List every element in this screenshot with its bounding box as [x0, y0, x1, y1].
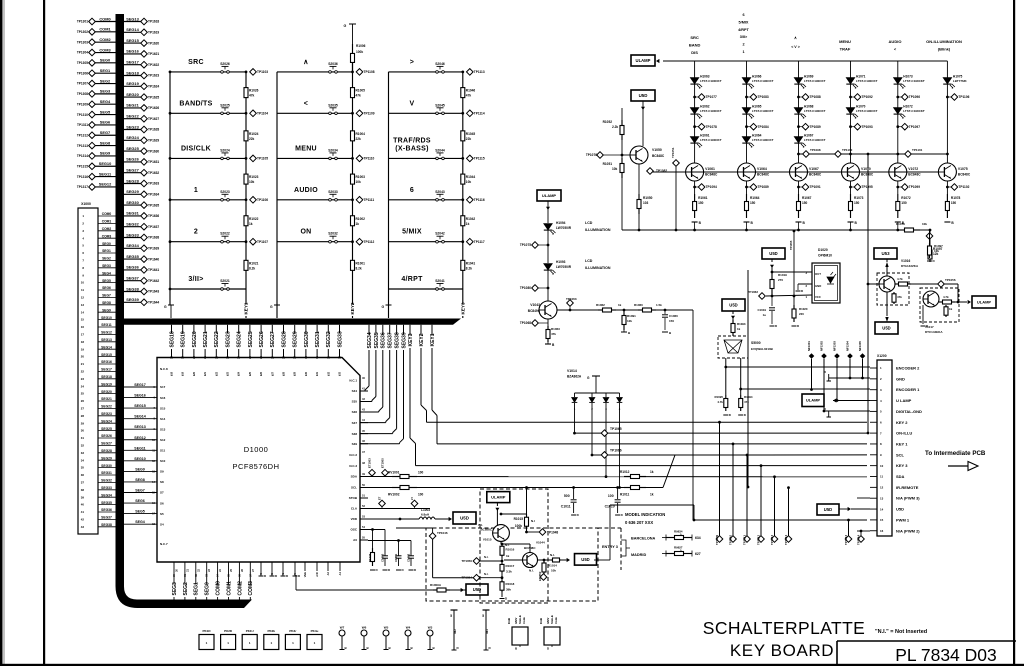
svg-text:47k: 47k [466, 94, 472, 98]
svg-text:SEG9: SEG9 [135, 467, 145, 471]
svg-text:b18: b18 [171, 371, 174, 376]
svg-text:BC848C: BC848C [861, 173, 874, 177]
svg-text:SEG19: SEG19 [181, 331, 187, 347]
svg-text:43: 43 [81, 525, 85, 529]
svg-text:b19: b19 [182, 371, 185, 376]
svg-text:H1063: H1063 [700, 75, 710, 79]
svg-text:ON-ILLUMINATION: ON-ILLUMINATION [926, 39, 962, 44]
svg-text:SDA: SDA [351, 475, 358, 479]
svg-text:10k: 10k [466, 180, 472, 184]
svg-text:SEG18: SEG18 [126, 70, 139, 75]
svg-text:S15: S15 [160, 406, 166, 410]
svg-text:R9634: R9634 [674, 530, 683, 534]
svg-text:DIGITAL-GND: DIGITAL-GND [896, 409, 922, 414]
svg-text:TP1011: TP1011 [743, 535, 747, 545]
svg-text:V1061: V1061 [705, 167, 715, 171]
svg-text:16: 16 [81, 325, 85, 329]
svg-text:PCF8576DH: PCF8576DH [232, 462, 279, 471]
svg-text:NF1304: NF1304 [846, 341, 850, 351]
svg-text:SEG4: SEG4 [135, 520, 145, 524]
svg-text:SEG20: SEG20 [192, 331, 198, 347]
svg-text:SEG18: SEG18 [101, 375, 112, 379]
svg-text:47k: 47k [249, 94, 255, 98]
svg-text:41: 41 [81, 510, 85, 514]
svg-text:R1015: R1015 [514, 517, 524, 521]
svg-text:BAND/TS: BAND/TS [179, 100, 212, 107]
svg-text:38: 38 [81, 488, 85, 492]
svg-text:1k: 1k [737, 327, 741, 331]
svg-text:22k: 22k [356, 137, 362, 141]
svg-text:5: 5 [450, 614, 452, 618]
svg-text:BARCELONA: BARCELONA [631, 537, 656, 541]
svg-text:S17: S17 [160, 385, 166, 389]
svg-text:TP1102: TP1102 [958, 185, 969, 189]
svg-text:KEY BOARD: KEY BOARD [730, 641, 834, 660]
svg-text:SEG20: SEG20 [126, 92, 139, 97]
svg-text:ENTRY 3: ENTRY 3 [602, 545, 618, 549]
svg-text:S2024: S2024 [220, 148, 230, 152]
svg-text:47k: 47k [744, 400, 749, 404]
svg-text:SEG5: SEG5 [100, 109, 111, 114]
svg-text:4/RPT: 4/RPT [401, 276, 423, 283]
svg-text:SEG21: SEG21 [101, 397, 112, 401]
svg-text:LTST-C190CKT: LTST-C190CKT [700, 109, 722, 113]
svg-text:4.7k: 4.7k [943, 295, 949, 299]
svg-text:SEG25: SEG25 [248, 331, 254, 347]
svg-text:SEG37: SEG37 [388, 332, 394, 348]
svg-text:18: 18 [170, 356, 174, 359]
svg-text:TP1094: TP1094 [706, 185, 717, 189]
svg-text:b21: b21 [204, 371, 207, 376]
svg-text:SEG22: SEG22 [101, 405, 112, 409]
svg-text:S4: S4 [160, 522, 164, 526]
svg-text:TP1315: TP1315 [77, 164, 88, 168]
svg-text:TP1628: TP1628 [148, 128, 159, 132]
svg-text:TP1307: TP1307 [77, 82, 88, 86]
svg-text:SEG11: SEG11 [99, 171, 112, 176]
svg-text:28: 28 [81, 414, 85, 418]
svg-text:TP1083: TP1083 [758, 95, 769, 99]
svg-text:D1000: D1000 [244, 445, 269, 454]
svg-text:R1044: R1044 [466, 175, 476, 179]
svg-text:22k: 22k [466, 137, 472, 141]
svg-text:22: 22 [214, 356, 218, 359]
svg-text:25: 25 [81, 392, 85, 396]
svg-text:S2041: S2041 [435, 279, 445, 283]
svg-text:SEG9: SEG9 [100, 151, 111, 156]
svg-text:LW7050/R: LW7050/R [556, 226, 572, 230]
svg-text:SEG8: SEG8 [100, 140, 111, 145]
svg-text:H1070: H1070 [856, 105, 866, 109]
svg-text:SEG25: SEG25 [101, 427, 112, 431]
svg-text:R1051: R1051 [603, 162, 613, 166]
svg-text:LW7050/R: LW7050/R [556, 265, 572, 269]
svg-text:ENCODER 2: ENCODER 2 [896, 366, 920, 371]
svg-text:S12: S12 [160, 438, 166, 442]
svg-text:47k: 47k [897, 295, 902, 299]
svg-text:6: 6 [742, 13, 744, 17]
svg-text:R1018: R1018 [506, 582, 515, 586]
svg-text:LCD: LCD [585, 221, 593, 225]
svg-text:b26: b26 [260, 371, 263, 376]
svg-text:TP1089: TP1089 [758, 185, 769, 189]
svg-text:TP1639: TP1639 [148, 247, 159, 251]
svg-text:SEG7: SEG7 [102, 294, 111, 298]
svg-text:C1001: C1001 [394, 553, 398, 562]
svg-text:20: 20 [81, 355, 85, 359]
svg-text:TP1082: TP1082 [656, 169, 667, 173]
svg-text:SEG22: SEG22 [214, 331, 220, 347]
svg-text:N.I.: N.I. [478, 523, 483, 527]
svg-text:S10: S10 [160, 459, 166, 463]
svg-text:SEG29: SEG29 [293, 331, 299, 347]
svg-text:V1050: V1050 [652, 148, 662, 152]
svg-text:V1064: V1064 [757, 167, 767, 171]
svg-text:S2032: S2032 [328, 232, 338, 236]
svg-text:AUDIO: AUDIO [294, 187, 318, 194]
svg-text:32: 32 [81, 444, 85, 448]
svg-text:SEG3: SEG3 [172, 582, 178, 596]
svg-text:SEG37: SEG37 [126, 276, 139, 281]
svg-text:R1052: R1052 [603, 120, 613, 124]
svg-text:TP1014: TP1014 [784, 534, 788, 545]
svg-text:SEG12: SEG12 [99, 182, 112, 187]
svg-text:COM0: COM0 [216, 581, 222, 596]
svg-text:R1078: R1078 [951, 196, 961, 200]
svg-text:PK4u: PK4u [311, 629, 319, 633]
svg-text:S8: S8 [160, 480, 164, 484]
svg-text:BC848C: BC848C [757, 173, 770, 177]
svg-text:NF1305: NF1305 [858, 341, 862, 351]
svg-text:S2042: S2042 [435, 232, 445, 236]
svg-text:OUT: OUT [815, 272, 821, 276]
svg-text:SEG5: SEG5 [102, 279, 111, 283]
svg-text:SEG4: SEG4 [100, 99, 111, 104]
svg-text:31: 31 [315, 356, 319, 359]
svg-text:13: 13 [81, 303, 85, 307]
svg-text:15: 15 [880, 518, 884, 522]
svg-text:N/A (PWM 3): N/A (PWM 3) [896, 496, 920, 501]
svg-text:V1075: V1075 [958, 167, 968, 171]
svg-text:13: 13 [880, 496, 884, 500]
svg-text:SRC: SRC [188, 59, 204, 66]
svg-text:500: 500 [564, 494, 570, 498]
svg-text:V: V [410, 100, 415, 107]
svg-text:1k: 1k [650, 470, 654, 474]
svg-text:R1002: R1002 [356, 217, 366, 221]
svg-text:TP1100: TP1100 [842, 148, 853, 152]
svg-text:TP1077: TP1077 [706, 95, 717, 99]
svg-text:COM0: COM0 [102, 212, 112, 216]
svg-text:COM1: COM1 [102, 220, 112, 224]
svg-text:1k: 1k [618, 303, 622, 307]
svg-text:(X-BASS): (X-BASS) [395, 145, 429, 152]
svg-text:32: 32 [326, 356, 330, 359]
svg-text:KEY1: KEY1 [430, 333, 436, 346]
svg-text:SEG5: SEG5 [135, 510, 145, 514]
svg-text:MENU: MENU [295, 145, 317, 152]
svg-text:V1043: V1043 [530, 303, 540, 307]
svg-text:TP1063: TP1063 [566, 297, 577, 301]
svg-text:N.I: N.I [531, 519, 535, 523]
svg-text:LTST-C190CKT: LTST-C190CKT [903, 79, 925, 83]
svg-text:TP1619: TP1619 [148, 31, 159, 35]
svg-text:COM3: COM3 [102, 234, 112, 238]
svg-text:H1093: H1093 [556, 260, 566, 264]
svg-text:S2045: S2045 [435, 103, 445, 107]
svg-text:40: 40 [81, 503, 85, 507]
svg-text:TP1106: TP1106 [257, 198, 268, 202]
svg-text:TP1091: TP1091 [810, 185, 821, 189]
svg-text:ET1003: ET1003 [368, 458, 372, 468]
svg-text:TP1098: TP1098 [810, 148, 821, 152]
svg-text:MADRID: MADRID [631, 553, 646, 557]
svg-text:R1019: R1019 [778, 273, 787, 277]
svg-text:SEG12: SEG12 [101, 331, 112, 335]
svg-text:TP1309: TP1309 [77, 102, 88, 106]
svg-text:634: 634 [695, 536, 701, 540]
svg-text:15: 15 [81, 318, 85, 322]
svg-text:b23: b23 [227, 371, 230, 376]
svg-text:TP1009: TP1009 [715, 534, 719, 545]
svg-text:36: 36 [81, 473, 85, 477]
svg-text:TP1117: TP1117 [474, 240, 485, 244]
svg-text:TP1050: TP1050 [461, 559, 472, 563]
svg-text:10: 10 [81, 281, 85, 285]
svg-text:TP1634: TP1634 [148, 193, 159, 197]
svg-text:COM2: COM2 [99, 37, 111, 42]
svg-text:TP1636: TP1636 [148, 214, 159, 218]
svg-text:14: 14 [81, 310, 85, 314]
svg-text:SEG14: SEG14 [101, 345, 112, 349]
svg-text:14: 14 [880, 507, 884, 511]
svg-text:TP1316: TP1316 [77, 175, 88, 179]
svg-text:G: G [270, 305, 273, 309]
svg-text:R1061: R1061 [698, 196, 708, 200]
svg-text:1k: 1k [506, 554, 510, 558]
svg-text:H1062: H1062 [700, 105, 710, 109]
svg-text:R1001: R1001 [356, 261, 366, 265]
svg-text:KEY2: KEY2 [419, 333, 425, 346]
svg-text:KEY1: KEY1 [244, 302, 249, 314]
svg-text:TP1101: TP1101 [912, 148, 923, 152]
svg-text:SEG12: SEG12 [134, 436, 146, 440]
svg-text:NF1301: NF1301 [807, 341, 811, 351]
svg-text:TP1622: TP1622 [148, 63, 159, 67]
svg-text:IM1: IM1 [485, 629, 489, 634]
svg-text:b22: b22 [215, 371, 218, 376]
svg-text:Code: Code [554, 617, 558, 624]
svg-text:SEG17: SEG17 [126, 60, 139, 65]
svg-text:TP1107: TP1107 [257, 240, 268, 244]
svg-text:IR-REMOTE: IR-REMOTE [896, 485, 919, 490]
svg-text:SEG23: SEG23 [225, 331, 231, 347]
svg-text:U5D: U5D [460, 516, 469, 521]
svg-text:SEG13: SEG13 [101, 338, 112, 342]
svg-text:SEG6: SEG6 [135, 499, 145, 503]
svg-text:PK1U: PK1U [246, 629, 254, 633]
svg-text:SEG0: SEG0 [102, 242, 111, 246]
svg-text:KEY2: KEY2 [350, 302, 355, 314]
svg-text:150: 150 [951, 201, 957, 205]
svg-text:ULAMP: ULAMP [636, 58, 651, 63]
svg-text:S2021: S2021 [220, 279, 230, 283]
svg-text:b29: b29 [294, 371, 297, 376]
svg-text:COM1: COM1 [99, 27, 111, 32]
svg-text:12k: 12k [934, 249, 939, 253]
svg-text:N/A (PWM 2): N/A (PWM 2) [896, 528, 920, 533]
svg-text:10k: 10k [922, 222, 927, 226]
svg-text:SEG17: SEG17 [134, 383, 146, 387]
svg-text:TP1621: TP1621 [148, 52, 159, 56]
svg-text:SEG7: SEG7 [100, 130, 110, 135]
svg-text:V1070: V1070 [861, 167, 871, 171]
svg-text:SEG31: SEG31 [126, 211, 139, 216]
svg-text:SEG37: SEG37 [101, 516, 112, 520]
svg-text:S2043: S2043 [435, 190, 445, 194]
svg-text:MENU: MENU [839, 39, 851, 44]
svg-text:TP1089: TP1089 [810, 125, 821, 129]
svg-text:R1022: R1022 [249, 217, 259, 221]
svg-text:33: 33 [338, 356, 342, 359]
svg-text:SEG36: SEG36 [101, 508, 112, 512]
svg-text:P3: P3 [259, 572, 263, 576]
svg-text:C1002: C1002 [407, 553, 411, 562]
svg-text:P1: P1 [281, 572, 285, 576]
svg-text:S7: S7 [160, 491, 164, 495]
svg-text:R1067: R1067 [802, 196, 812, 200]
svg-text:N.C.7: N.C.7 [160, 542, 168, 546]
svg-text:W3: W3 [428, 626, 433, 630]
svg-text:R1014: R1014 [548, 564, 557, 568]
svg-text:100: 100 [418, 471, 424, 475]
svg-text:U5D: U5D [882, 326, 890, 331]
svg-text:PK2b: PK2b [267, 629, 275, 633]
svg-text:S37: S37 [352, 421, 358, 425]
svg-text:N.I.: N.I. [505, 543, 510, 547]
svg-text:SEG35: SEG35 [101, 501, 112, 505]
svg-text:R1063: R1063 [551, 327, 560, 331]
svg-text:RV1001: RV1001 [388, 471, 400, 475]
svg-text:SEG10: SEG10 [101, 316, 112, 320]
svg-text:TP1314: TP1314 [77, 154, 88, 158]
svg-text:TP1068: TP1068 [520, 321, 531, 325]
svg-text:R1079: R1079 [896, 222, 905, 226]
svg-text:R1023: R1023 [368, 553, 372, 562]
svg-text:150: 150 [802, 201, 808, 205]
svg-text:TP1084: TP1084 [758, 125, 769, 129]
svg-text:DIS/CLK: DIS/CLK [181, 145, 211, 152]
svg-text:S38: S38 [352, 432, 358, 436]
svg-text:H1073: H1073 [903, 75, 913, 79]
svg-text:b20: b20 [193, 371, 196, 376]
svg-text:28: 28 [282, 356, 286, 359]
svg-text:SEG3: SEG3 [102, 264, 111, 268]
svg-text:11: 11 [81, 288, 84, 292]
svg-text:35: 35 [81, 466, 85, 470]
svg-text:R1097: R1097 [934, 244, 943, 248]
svg-text:A1: A1 [338, 571, 342, 575]
svg-text:ULAMP: ULAMP [542, 193, 557, 198]
svg-text:23: 23 [226, 356, 230, 359]
svg-text:1k: 1k [466, 222, 470, 226]
svg-text:270: 270 [778, 278, 783, 282]
svg-text:S5: S5 [160, 512, 164, 516]
svg-text:D: D [824, 407, 826, 411]
svg-text:S39: S39 [352, 442, 358, 446]
svg-text:R1072: R1072 [901, 196, 911, 200]
svg-text:SEG20: SEG20 [101, 390, 112, 394]
svg-text:SEG6: SEG6 [102, 286, 111, 290]
svg-text:TP1013: TP1013 [844, 534, 848, 545]
svg-text:8.2k: 8.2k [466, 266, 472, 270]
svg-text:18: 18 [81, 340, 85, 344]
svg-text:SEG32: SEG32 [326, 331, 332, 347]
svg-text:b32: b32 [327, 371, 330, 376]
svg-text:S5000: S5000 [751, 341, 761, 345]
svg-text:LTST-C190CKT: LTST-C190CKT [752, 138, 774, 142]
svg-text:U5D: U5D [824, 507, 832, 512]
svg-text:150: 150 [854, 201, 860, 205]
svg-text:ULAMP: ULAMP [806, 398, 821, 403]
svg-text:ET1005: ET1005 [381, 458, 385, 468]
svg-text:BC848C: BC848C [809, 173, 822, 177]
svg-text:W5: W5 [384, 626, 389, 630]
svg-text:SRC: SRC [690, 35, 699, 40]
svg-text:30: 30 [304, 356, 308, 359]
svg-text:SEG11: SEG11 [101, 323, 112, 327]
svg-text:LTST-C190CKT: LTST-C190CKT [700, 79, 722, 83]
svg-text:S13: S13 [160, 427, 166, 431]
svg-text:TP1051: TP1051 [671, 147, 675, 158]
svg-text:RV1002: RV1002 [388, 493, 400, 497]
svg-text:TP1114: TP1114 [474, 112, 485, 116]
svg-text:TP1638: TP1638 [148, 236, 159, 240]
svg-text:SEG36: SEG36 [126, 265, 139, 270]
svg-text:23: 23 [81, 377, 85, 381]
svg-text:KEY 1: KEY 1 [896, 441, 908, 446]
svg-text:N.C.1: N.C.1 [349, 379, 357, 383]
svg-text:27: 27 [270, 356, 274, 359]
svg-text:TP1104: TP1104 [257, 112, 268, 116]
svg-text:KEY3: KEY3 [461, 302, 466, 314]
svg-text:TP1633: TP1633 [148, 182, 159, 186]
svg-text:TP1014: TP1014 [857, 534, 861, 545]
svg-text:b28: b28 [283, 371, 286, 376]
svg-text:H1067: H1067 [804, 134, 814, 138]
svg-text:R1009A: R1009A [430, 583, 442, 587]
svg-text:SEG7: SEG7 [135, 489, 145, 493]
svg-text:R1023: R1023 [249, 175, 259, 179]
svg-text:S2026: S2026 [220, 62, 230, 66]
svg-text:103: 103 [643, 201, 649, 205]
svg-text:V1014: V1014 [567, 369, 577, 373]
svg-text:S36: S36 [352, 410, 358, 414]
svg-text:TP1099: TP1099 [909, 185, 920, 189]
svg-text:W6: W6 [362, 626, 367, 630]
svg-text:SEG34: SEG34 [126, 243, 139, 248]
svg-text:1k: 1k [949, 307, 953, 311]
svg-text:OPI6M10: OPI6M10 [818, 254, 832, 258]
svg-text:21: 21 [203, 356, 207, 359]
svg-text:SEG35: SEG35 [126, 254, 139, 259]
svg-text:KEY 3: KEY 3 [896, 463, 908, 468]
svg-text:TP1625: TP1625 [148, 95, 159, 99]
svg-text:TP1629: TP1629 [148, 139, 159, 143]
svg-text:b33: b33 [339, 371, 342, 376]
svg-text:19: 19 [181, 356, 185, 359]
svg-text:< V >: < V > [791, 45, 800, 49]
